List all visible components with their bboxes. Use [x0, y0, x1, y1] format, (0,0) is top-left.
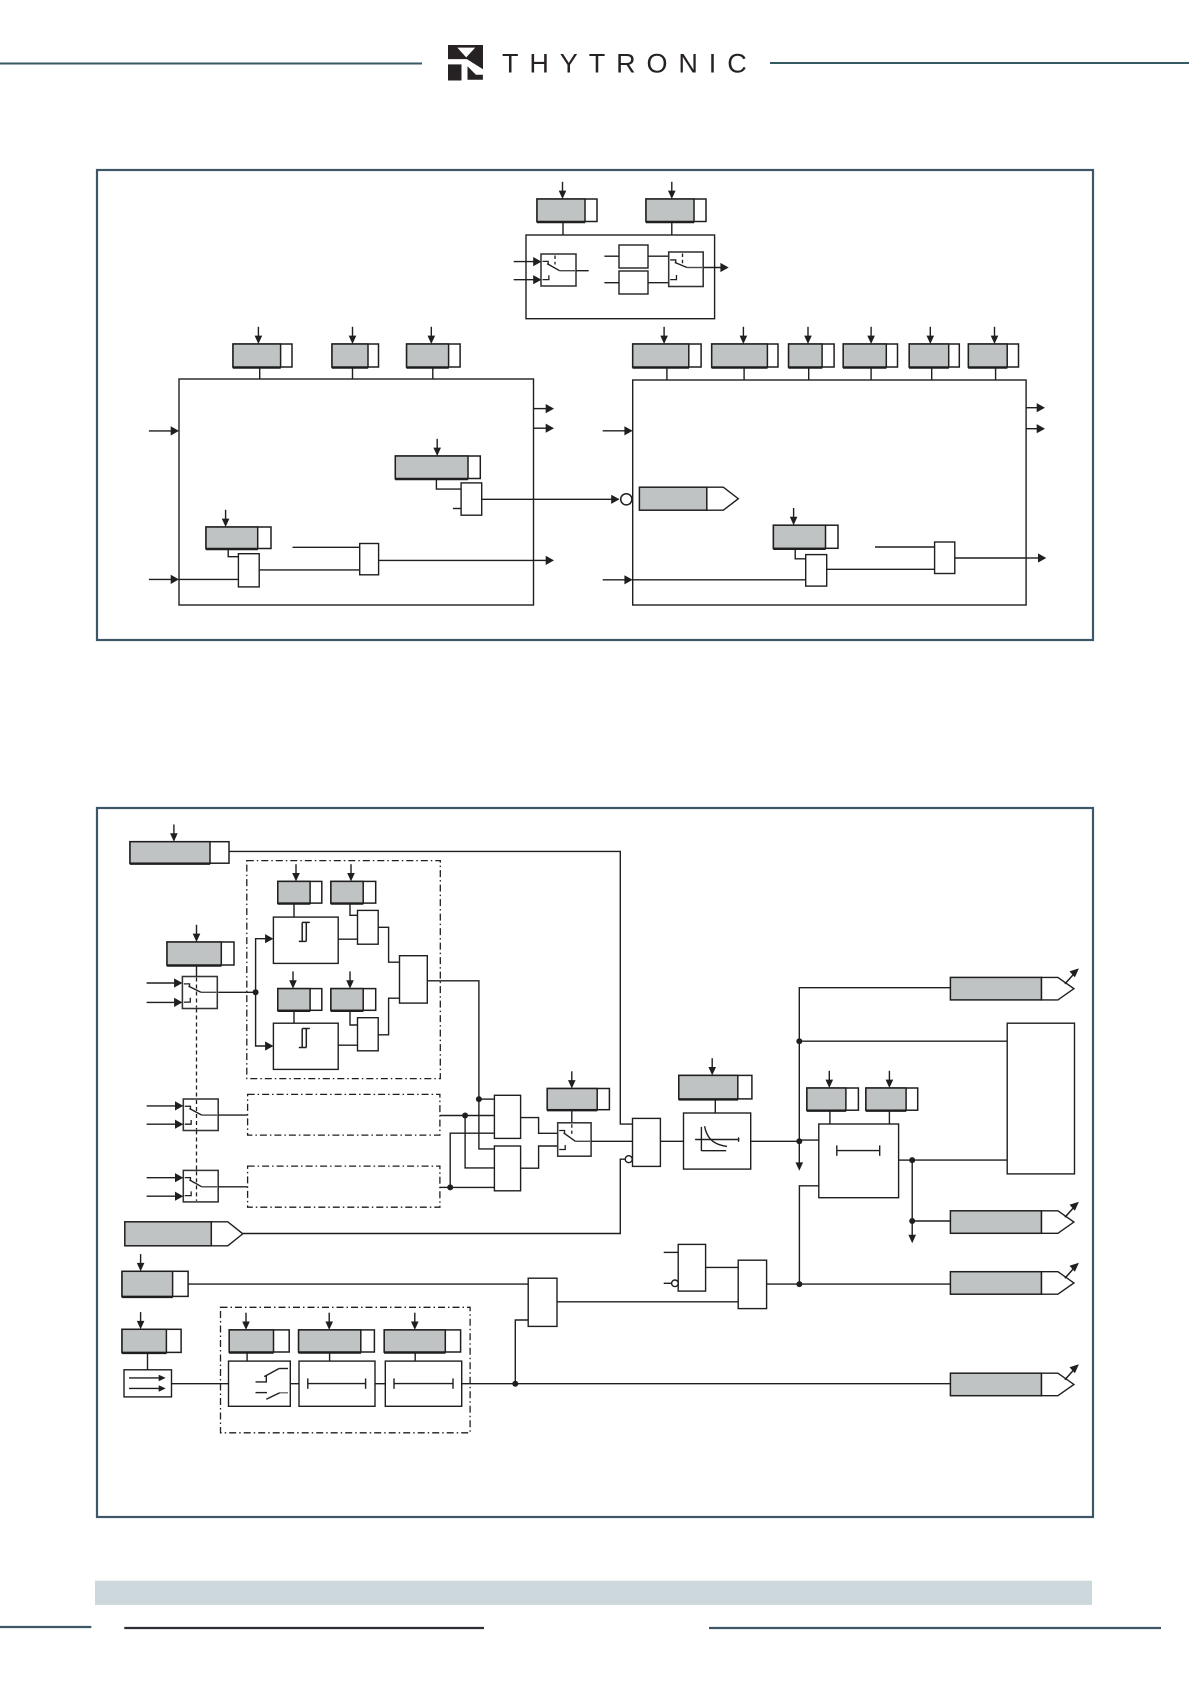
stem M1 [246, 1352, 248, 1361]
sub-diagram box [526, 235, 715, 319]
OR gate box [400, 956, 428, 1003]
wire tB to tC [259, 569, 360, 571]
wire top label to AND K1 top input [229, 851, 633, 1124]
input arrow a1 [514, 261, 534, 263]
timer curve symbol [695, 1126, 739, 1151]
dangling wire into tE [875, 546, 935, 548]
stem curve label [714, 1099, 716, 1113]
AND box U2 [494, 1146, 520, 1191]
wire B2 to S2 [338, 1044, 357, 1046]
wire timer output [751, 1140, 800, 1142]
stem T2 [671, 222, 673, 236]
wire AND K2 to flag3 [767, 1283, 951, 1285]
label setting L3 [406, 327, 460, 368]
stem L2 [352, 367, 354, 379]
input arrow SW2 b [147, 1123, 176, 1125]
measuring element box left [179, 379, 534, 605]
label setting R6 [968, 327, 1018, 368]
label setting SR b [866, 1071, 918, 1111]
selector switch SW3 [183, 1170, 218, 1202]
stem G3 [293, 1010, 295, 1023]
selector switch S1a [541, 254, 576, 286]
wire SR output [899, 1159, 913, 1161]
dashed control line SW2-SW3 [196, 1131, 198, 1171]
wire region2 out with junction [440, 1115, 465, 1117]
timer box tB [238, 554, 259, 587]
max duration box W3 [385, 1361, 461, 1406]
label setting G1 [278, 864, 322, 904]
wire W2 to W3 [375, 1383, 385, 1385]
label setting T2 [646, 182, 706, 223]
label inner setting tB [206, 510, 271, 550]
wire B to S1b [648, 282, 669, 284]
wire NOT to K2 [706, 1266, 739, 1268]
junction to memory box [796, 1038, 802, 1044]
SR timer box [819, 1124, 899, 1198]
wire G4 to S2 [350, 1010, 358, 1025]
stem SR b [888, 1110, 890, 1124]
label setting M2 [298, 1313, 374, 1353]
latch box S1 [358, 910, 379, 944]
wire S2 to OR [378, 998, 399, 1035]
label setting curve select [547, 1071, 609, 1110]
measuring element box right [633, 380, 1026, 605]
output arrow left box 2 [534, 427, 547, 429]
timer box tD [806, 555, 827, 587]
stem L3 [432, 367, 434, 379]
label IN select [167, 925, 234, 966]
junction feedback [796, 1281, 802, 1287]
Thytronic logo mark [448, 45, 483, 81]
wire flag to K1 inverted input [243, 1159, 626, 1233]
dash-dot region comparators [247, 861, 440, 1079]
wire tA to NOT node [482, 498, 619, 500]
inverted input circle K1 [625, 1156, 632, 1163]
block A [619, 245, 648, 268]
input arrow SW2 a [147, 1105, 176, 1107]
wire tD to tE [827, 568, 935, 570]
label setting G3 [278, 971, 322, 1011]
figure 1 frame [97, 170, 1093, 640]
junction timer output [796, 1138, 802, 1144]
wire A to S1b [648, 255, 669, 257]
AND box U1 [494, 1095, 520, 1138]
branch OR to U2 [479, 1099, 495, 1149]
label setting top (breaker supervision) [130, 825, 229, 865]
label setting block 2 [122, 1312, 181, 1353]
input arrow SW1 a [147, 982, 175, 984]
input arrow right box bottom [603, 579, 625, 581]
output flag relays [950, 1364, 1079, 1396]
wire down to flag2 [912, 1160, 950, 1221]
footer bar [95, 1581, 1092, 1605]
label setting L2 [332, 327, 379, 368]
output arrow right box 1 [1026, 407, 1037, 409]
inverted input circle NOT [672, 1280, 679, 1287]
branch to B2 [256, 992, 266, 1046]
timer box tC [360, 544, 379, 575]
output wire left box bottom [379, 559, 534, 561]
label setting L1 [233, 327, 292, 368]
wire into A [604, 255, 619, 257]
wire W3 out with junction [462, 1383, 951, 1385]
input arrow left box bottom [149, 578, 171, 580]
wire into B [604, 282, 619, 284]
output arrow left box 1 [534, 408, 547, 410]
output flag trip 2 [950, 1202, 1079, 1234]
svg-text:THYTRONIC: THYTRONIC [502, 49, 758, 79]
output wire right box bottom [955, 557, 1026, 559]
label setting SR a [807, 1071, 859, 1111]
figure 2 frame [97, 808, 1093, 1517]
NOT gate box [678, 1244, 705, 1291]
dangling down arrow 2 [911, 1221, 913, 1236]
selector switch SW4 [558, 1123, 591, 1156]
stub from S1a [576, 270, 589, 272]
label VT supervision setting T1 [537, 182, 597, 223]
stem T1 [562, 222, 564, 236]
SR feedback wire [799, 1186, 818, 1284]
wire K1 to timer [660, 1140, 683, 1142]
wire label tD to tD box [795, 548, 806, 559]
timer box tE [935, 542, 955, 574]
stub left of tA box [453, 508, 461, 510]
timer box tA [461, 483, 482, 515]
blocking logic box [528, 1278, 557, 1326]
stem L1 [259, 367, 261, 379]
block-reference flag fig1 [639, 487, 738, 510]
input arrow SW3 b [147, 1195, 176, 1197]
label setting R3 [788, 327, 834, 368]
min duration box W2 [299, 1361, 375, 1406]
output arrow left box bottom [534, 559, 547, 561]
timer characteristic box [684, 1113, 751, 1169]
wire U2 to selector [521, 1146, 558, 1168]
input arrow SW3 a [147, 1177, 176, 1179]
output flag trip 1 [950, 968, 1079, 1000]
relay contact box W1 [229, 1361, 291, 1406]
wire junction to memory box [799, 1040, 1007, 1042]
stem R4 [870, 367, 872, 380]
wire S1 to OR [378, 927, 399, 962]
footer rule left [124, 1627, 484, 1629]
label inner setting tD [773, 508, 838, 549]
stem R3 [808, 367, 810, 380]
stub into NOT top [664, 1251, 679, 1253]
wire input to tB box [179, 578, 238, 580]
branch region3 to U1 [450, 1133, 494, 1187]
comparator box B2 [273, 1023, 338, 1069]
stem block2 [147, 1352, 149, 1369]
branch region2 to U2 [465, 1116, 494, 1168]
input arrow left box top [149, 430, 171, 432]
dash-dot region 3 [248, 1166, 440, 1207]
branch up to blocking box [515, 1320, 528, 1384]
stem SR a [829, 1110, 831, 1124]
dashed control line SW1-SW2 [196, 1009, 198, 1100]
stem M3 [414, 1352, 416, 1361]
stem R1 [666, 367, 668, 380]
dangling down arrow 1 [798, 1141, 800, 1163]
stem G1 [293, 903, 295, 917]
label setting R1 [633, 327, 702, 368]
selector switch SW1 [182, 977, 217, 1009]
wire input to tD box [633, 579, 806, 581]
memory box [1007, 1023, 1074, 1174]
output arrow sub-diagram [703, 267, 721, 269]
stem curve label to SW4 [571, 1110, 573, 1123]
stem R2 [743, 367, 745, 380]
wire SR output to memory box [912, 1159, 1007, 1161]
label setting M3 [384, 1313, 461, 1353]
input arrow right box top [603, 430, 625, 432]
wire buffer to W1 [172, 1383, 229, 1385]
wire label tA to tA box [436, 479, 461, 490]
inversion circle [621, 494, 632, 505]
stub into NOT circle [664, 1282, 672, 1284]
wire SW3 to region3 [218, 1186, 247, 1188]
stem IN select [196, 965, 198, 977]
output arrow right box 2 [1026, 428, 1037, 430]
label setting G4 [331, 971, 376, 1011]
wire G2 to S1 [350, 903, 358, 915]
label setting curve [679, 1058, 752, 1100]
wire SW2 to region2 [218, 1114, 247, 1116]
junction OR line [476, 1096, 482, 1102]
comparator box B1 [273, 917, 338, 963]
stem R5 [931, 367, 933, 380]
label setting R4 [843, 327, 898, 368]
input arrow a2 [514, 279, 534, 281]
dash-dot region 2 [248, 1094, 440, 1135]
wire OR to AND column [427, 981, 479, 1099]
wire block1 label to blocking box [188, 1283, 528, 1285]
footer rule right [709, 1627, 1161, 1629]
wire B1 to S1 [338, 938, 357, 940]
wire U1 to selector [521, 1118, 558, 1134]
header rule left [0, 63, 422, 65]
selector switch SW2 [183, 1099, 218, 1131]
wire W1 to W2 [290, 1383, 299, 1385]
input arrow SW1 b [147, 1001, 175, 1003]
wire blocking box to K2 [557, 1301, 738, 1303]
stem R6 [995, 367, 997, 380]
label setting M1 [229, 1313, 289, 1353]
dangling wire into tC [293, 546, 360, 548]
selector switch S1b [669, 252, 704, 287]
wire region3 out with junction [440, 1186, 450, 1188]
arrowhead into NOT node [611, 495, 619, 504]
AND gate K1 [633, 1118, 661, 1166]
label inner setting tA [395, 439, 480, 480]
wire SW4 to AND K1 [591, 1140, 632, 1142]
AND gate K2 [738, 1260, 766, 1308]
label setting R2 [712, 327, 779, 368]
output flag trip 3 [950, 1263, 1079, 1295]
branch to B1 [256, 939, 266, 993]
latch box S2 [358, 1018, 379, 1051]
label setting R5 [909, 327, 959, 368]
wire junction into SR [799, 1139, 819, 1141]
dash-dot region output relays [221, 1307, 471, 1433]
wire SW1 output with junction [218, 991, 255, 993]
label setting block 1 [122, 1254, 188, 1297]
wire up to flag1 and memory [799, 988, 950, 1142]
wire label tB to tB box [228, 549, 238, 557]
label setting G2 [331, 864, 376, 904]
stem M2 [329, 1352, 331, 1361]
block-reference flag fig2 [125, 1222, 243, 1246]
footer rule far left [0, 1626, 91, 1628]
output arrow right box bottom [1026, 557, 1038, 559]
buffer box [124, 1370, 172, 1397]
header rule right [770, 62, 1189, 64]
block B [619, 271, 648, 294]
